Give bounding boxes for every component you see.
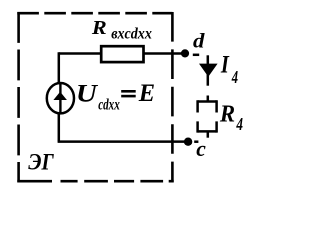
dashed wire toward node c (horizontal dash) bbox=[194, 140, 198, 143]
resistor R4 body (dashed rectangle): top edge bbox=[198, 100, 217, 103]
label I4 bbox=[220, 50, 238, 87]
svg-text:c: c bbox=[196, 136, 206, 161]
node d bbox=[181, 49, 189, 57]
wire: left vertical through voltage source bbox=[58, 52, 61, 141]
equivalent generator dashed box ЭГ: left edge bbox=[17, 12, 20, 182]
svg-text:U: U bbox=[76, 80, 99, 107]
svg-text:4: 4 bbox=[231, 67, 238, 87]
svg-text:4: 4 bbox=[236, 114, 243, 134]
equivalent generator dashed box ЭГ: top edge bbox=[17, 12, 172, 15]
svg-text:I: I bbox=[220, 50, 230, 79]
wire: resistor right lead to node d bbox=[143, 52, 185, 55]
dashed lead from R4 down bbox=[207, 131, 210, 137]
resistor R4 right side dashes bbox=[215, 100, 218, 132]
resistor R4 bottom edge bbox=[198, 130, 217, 133]
voltage source internal wire bbox=[59, 83, 61, 113]
wire: bottom from source to node c bbox=[58, 140, 188, 143]
voltage source arrow (up) bbox=[53, 92, 67, 100]
svg-text:cdхх: cdхх bbox=[98, 97, 120, 114]
node c bbox=[184, 138, 192, 146]
voltage source U_cdхх circle bbox=[47, 83, 74, 113]
resistor R_вхcdхх body bbox=[101, 46, 143, 62]
dashed lead into resistor R4 bbox=[207, 96, 210, 102]
svg-text:R: R bbox=[91, 17, 107, 39]
wire: top-left from source to resistor bbox=[59, 52, 102, 55]
svg-text:ЭГ: ЭГ bbox=[28, 150, 54, 175]
equivalent generator dashed box ЭГ: right edge bbox=[171, 12, 174, 182]
resistor R4 left side dashes bbox=[196, 100, 199, 132]
svg-text:R: R bbox=[219, 101, 235, 128]
svg-text:E: E bbox=[138, 80, 155, 107]
dashed wire vertical segment through current arrow bbox=[207, 55, 210, 85]
current arrow I4 (down) bbox=[199, 64, 218, 77]
label R_вхcdхх bbox=[91, 17, 152, 43]
label R4 bbox=[219, 101, 243, 134]
svg-text:вхcdхх: вхcdхх bbox=[111, 26, 152, 43]
dashed wire from node d toward arrow (horizontal dash) bbox=[193, 54, 199, 57]
equivalent generator dashed box ЭГ: bottom edge bbox=[17, 180, 173, 183]
label U_cdхх = E bbox=[76, 80, 155, 114]
svg-text:d: d bbox=[193, 29, 205, 53]
